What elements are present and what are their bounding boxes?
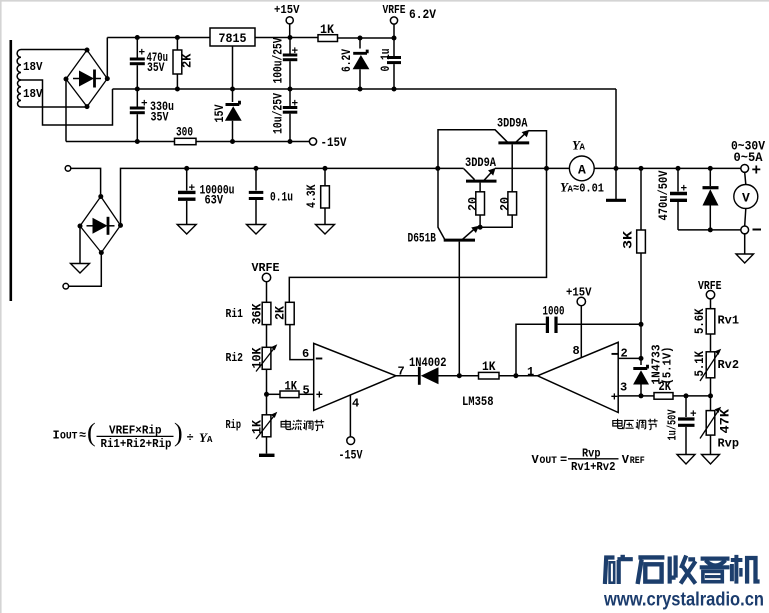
bridge rectifier B1 (64, 48, 110, 110)
svg-text:Ri1: Ri1 (226, 307, 244, 321)
svg-text:1: 1 (527, 365, 534, 379)
potentiometer Rip 1K (226, 394, 278, 453)
transformer core (10, 40, 13, 301)
svg-text:6: 6 (302, 347, 309, 361)
wire coil1 top to bridge1 top (21, 49, 87, 51)
svg-text:Rv1: Rv1 (718, 314, 740, 328)
terminal AC1 (main winding) (65, 166, 71, 172)
ground (4.3K) (316, 225, 335, 235)
terminal OUT+ (741, 165, 749, 173)
zener D 6.2V (339, 36, 369, 92)
svg-text:20: 20 (466, 197, 481, 211)
wire center tap to 0V rail (21, 80, 113, 125)
svg-text:I: I (53, 429, 60, 443)
svg-text:8: 8 (573, 344, 580, 358)
terminal AC2 (main winding) (63, 283, 69, 289)
svg-text:0.1u: 0.1u (270, 190, 293, 205)
diode D (output protection) (703, 166, 719, 233)
output rail through ammeter (547, 167, 741, 169)
-15V rail (66, 141, 309, 143)
resistor R 2K (feedback divider) (273, 302, 314, 359)
svg-text:2K: 2K (273, 306, 288, 320)
svg-text:+: + (292, 99, 299, 111)
svg-text:Rv2: Rv2 (718, 358, 740, 372)
svg-text:+: + (316, 389, 323, 403)
transistor Q2 3DD9A (middle) (464, 155, 547, 192)
resistor Rv1 5.6K (692, 308, 739, 351)
svg-text:A: A (207, 435, 213, 445)
svg-text:+: + (752, 162, 762, 180)
wire B1- down to -15V rail (65, 79, 67, 142)
svg-text:A: A (578, 162, 586, 177)
svg-text:20: 20 (498, 197, 513, 211)
resistor R 20 (left) (466, 192, 485, 227)
svg-text:=: = (560, 453, 567, 467)
ground (Rvp) (702, 455, 720, 465)
wire B2 bottom to AC2 (69, 253, 102, 287)
svg-text:-15V: -15V (321, 135, 347, 150)
svg-text:Ri2: Ri2 (226, 351, 244, 365)
capacitor C5 10000u/63V (178, 166, 235, 225)
svg-text:1u/50V: 1u/50V (666, 409, 680, 441)
regulator U 7815 (210, 28, 255, 92)
svg-text:1000: 1000 (543, 304, 565, 319)
formula VOUT (532, 447, 645, 475)
capacitor C1 470u/35V (130, 35, 168, 92)
svg-text:OUT: OUT (60, 432, 78, 443)
svg-text:+: + (690, 409, 697, 421)
terminal +15V (op-amp supply) (566, 286, 592, 359)
svg-text:7815: 7815 (219, 31, 247, 46)
svg-text:÷: ÷ (187, 431, 194, 445)
ground (C5) (177, 225, 196, 235)
label 电流调节 (current adjust) (281, 420, 324, 431)
potentiometer Rv2 5.1K (692, 349, 739, 396)
svg-text:63V: 63V (205, 193, 224, 208)
svg-text:36K: 36K (250, 303, 265, 324)
svg-text:OUT: OUT (540, 456, 558, 467)
transistor Q3 D651B (driver) (408, 166, 483, 376)
wire B1+ up to +rail (106, 38, 108, 79)
wire coil2 bottom to bridge1 bottom (21, 106, 87, 108)
ground (C6) (247, 225, 266, 235)
formula IOUT (53, 418, 214, 451)
op-amp U1B (voltage) (538, 342, 628, 412)
potentiometer Rvp 47K (700, 396, 739, 455)
svg-text:+15V: +15V (274, 3, 300, 17)
capacitor C3 100u/25V (271, 35, 299, 92)
svg-text:6.2V: 6.2V (409, 7, 436, 22)
svg-text:Rv1+Rv2: Rv1+Rv2 (571, 460, 616, 474)
svg-text:3DD9A: 3DD9A (465, 155, 496, 170)
svg-text:5: 5 (303, 384, 310, 398)
0V rail (mid) (113, 88, 617, 90)
svg-text:1N4002: 1N4002 (409, 355, 447, 370)
svg-text:300: 300 (176, 125, 193, 140)
label 电压调节 (voltage adjust) (613, 419, 658, 430)
svg-text:2K: 2K (180, 53, 195, 68)
svg-text:470u/50V: 470u/50V (656, 170, 671, 220)
resistor R 300 (175, 125, 197, 145)
wire OUT- to ground (744, 234, 746, 254)
capacitor C 1000 (comp) (516, 304, 644, 376)
svg-text:2K: 2K (659, 379, 672, 394)
wire 3K node down to pin2 (640, 324, 642, 358)
svg-text:LM358: LM358 (462, 394, 494, 409)
zener D 1N4733 (5.1V) (633, 345, 674, 399)
svg-text:+: + (611, 391, 618, 405)
svg-text:15V: 15V (212, 104, 227, 122)
terminal OUT- (741, 226, 749, 234)
label - (output) (753, 229, 762, 231)
wire sense: output node down to 2K feedback (289, 168, 546, 302)
resistor Ri1 36K (226, 302, 271, 347)
svg-text:5.6K: 5.6K (692, 308, 707, 334)
transistor Q1 3DD9A (top) (438, 116, 547, 192)
wire pin2 (618, 357, 641, 359)
ground (B2-) (71, 264, 90, 274)
ground (OUT-) (736, 254, 754, 263)
watermark 矿石收音机 (605, 555, 760, 584)
svg-text:4.3K: 4.3K (304, 184, 319, 208)
svg-text:REF: REF (630, 456, 645, 467)
svg-text:D651B: D651B (408, 231, 437, 246)
svg-text:Rvp: Rvp (718, 437, 740, 451)
resistor R 2K (bleeder) (173, 35, 195, 92)
svg-text:35V: 35V (151, 110, 169, 125)
wire pin3 (618, 395, 641, 397)
svg-text:18V: 18V (23, 87, 43, 101)
svg-text:10K: 10K (250, 347, 265, 368)
ground bar (0V) (606, 199, 626, 202)
svg-text:≈0.01: ≈0.01 (573, 181, 604, 195)
svg-text:V: V (622, 453, 630, 467)
0V rail drop to ground (615, 89, 617, 199)
svg-text:1K: 1K (320, 22, 334, 37)
svg-text:+: + (139, 48, 146, 60)
capacitor C 0.1u (VREF) (378, 36, 401, 92)
svg-text:10u/25V: 10u/25V (271, 93, 286, 134)
resistor R 1K (to pin5) (267, 379, 314, 398)
svg-text:Ri1+Ri2+Rip: Ri1+Ri2+Rip (101, 437, 172, 451)
svg-text:-15V: -15V (339, 448, 363, 463)
svg-text:3K: 3K (621, 231, 636, 249)
terminal VRFE (voltage set) (698, 279, 722, 309)
svg-text:Rip: Rip (226, 418, 242, 432)
terminal VRFE (current set) (252, 261, 280, 302)
diode D 1N4002 (396, 355, 462, 385)
bridge rectifier B2 (78, 194, 124, 255)
svg-text:): ) (174, 418, 183, 447)
svg-text:(: ( (87, 418, 96, 447)
svg-text:4: 4 (352, 397, 359, 411)
resistor R 1K (to VREF) (318, 22, 338, 42)
resistor R 20 (right) (480, 192, 516, 227)
terminal -15V (309, 135, 346, 150)
zener D 15V (212, 89, 242, 144)
svg-text:VREF×Rip: VREF×Rip (109, 424, 162, 438)
terminal +15V (274, 3, 300, 38)
svg-text:V: V (532, 453, 540, 467)
svg-text:V: V (742, 191, 750, 206)
wire B2- to ground (79, 226, 81, 264)
op-amp U1A (current) (302, 343, 405, 410)
capacitor C4 10u/25V (271, 89, 299, 144)
svg-text:+: + (189, 183, 196, 195)
ammeter A (560, 138, 604, 196)
svg-text:+: + (292, 46, 299, 58)
svg-text:18V: 18V (23, 60, 43, 74)
svg-text:3: 3 (620, 381, 627, 395)
transformer winding W2 18V (18, 80, 22, 107)
resistor R 1K (to pin1 node) (459, 359, 537, 379)
svg-text:1K: 1K (285, 379, 298, 394)
svg-text:www.crystalradio.cn: www.crystalradio.cn (603, 590, 764, 611)
resistor R 4.3K (304, 166, 329, 225)
resistor R 2K (pin3) (641, 379, 713, 399)
terminal VRFE (top) (383, 3, 406, 38)
potentiometer Ri2 10K (226, 344, 278, 394)
page border lines (0, 0, 769, 2)
ground (1u cap) (677, 455, 695, 465)
resistor R 3K (621, 166, 646, 324)
svg-text:3DD9A: 3DD9A (497, 116, 528, 131)
svg-text:+: + (141, 99, 148, 111)
wire B2+ up to main rail (121, 168, 464, 225)
output bottom rail (678, 229, 741, 231)
capacitor C6 0.1u (249, 166, 293, 225)
svg-text:1K: 1K (250, 420, 265, 434)
capacitor C2 330u/35V (130, 89, 174, 144)
svg-text:+: + (681, 184, 688, 196)
capacitor C7 470u/50V (656, 166, 688, 230)
svg-text:VRFE: VRFE (383, 3, 406, 17)
wire AC1 to bridge2 top (71, 168, 101, 194)
svg-text:A: A (580, 143, 586, 153)
voltmeter V (734, 172, 758, 226)
node (Ri2/Rip junction) (264, 392, 269, 397)
svg-text:≈: ≈ (79, 429, 86, 443)
svg-text:47K: 47K (718, 409, 733, 434)
ground bar (Rip) (259, 454, 275, 457)
svg-text:35V: 35V (147, 60, 165, 75)
transformer winding W1 18V (17, 50, 21, 81)
svg-text:100u/25V: 100u/25V (271, 37, 286, 83)
svg-text:5.1K: 5.1K (692, 351, 707, 377)
capacitor C 1u/50V (666, 396, 698, 455)
+rail (top) (107, 37, 394, 40)
svg-text:6.2V: 6.2V (339, 49, 354, 72)
svg-text:0.1u: 0.1u (378, 49, 393, 72)
pin 4 wire to -15V (339, 395, 363, 463)
